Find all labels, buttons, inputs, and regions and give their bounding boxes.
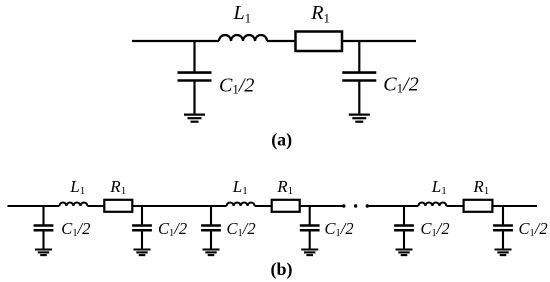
capacitor C1/2 shunt4 (b) bbox=[300, 226, 320, 231]
shunt 2 (b): wire node to capacitor bbox=[141, 206, 143, 226]
wire capacitor to ground shunt5 (b) bbox=[403, 230, 405, 250]
ellipsis dot 2 bbox=[354, 204, 357, 207]
svg-text:L1: L1 bbox=[232, 177, 248, 197]
resistor R1 section3 (b) bbox=[464, 200, 493, 212]
ground shunt5 (b) bbox=[396, 250, 413, 256]
shunt 6 (b): wire node to capacitor bbox=[502, 206, 504, 226]
wire input (a) bbox=[132, 40, 219, 42]
wire R1 section1 to section2 (b) bbox=[132, 205, 226, 207]
capacitor C1/2 shunt6 (b) bbox=[493, 226, 513, 231]
ground shunt3 (b) bbox=[203, 250, 220, 256]
shunt 4 (b): wire node to capacitor bbox=[309, 206, 311, 226]
wire capacitor to ground shunt2 (b) bbox=[141, 230, 143, 250]
ground shunt4 (b) bbox=[301, 250, 318, 256]
svg-text:L1: L1 bbox=[69, 177, 85, 197]
ellipsis dot 3 bbox=[366, 204, 369, 207]
ellipsis dot 1 bbox=[342, 204, 345, 207]
svg-text:L1: L1 bbox=[431, 177, 447, 197]
capacitor C1/2 shunt5 (b) bbox=[394, 226, 414, 231]
svg-text:R1: R1 bbox=[109, 177, 126, 197]
capacitor C1/2 right (a) bbox=[342, 73, 376, 81]
wire R1 section2 to dots (b) bbox=[300, 205, 344, 207]
ground shunt1 (b) bbox=[35, 250, 52, 256]
svg-text:C1/2: C1/2 bbox=[519, 219, 548, 239]
resistor R1 (a) bbox=[296, 32, 343, 52]
wire L1 to R1 section1 (b) bbox=[87, 205, 104, 207]
inductor L1 section1 (b) bbox=[59, 203, 87, 206]
ground shunt2 (b) bbox=[134, 250, 151, 256]
wire L1 to R1 section2 (b) bbox=[255, 205, 272, 207]
svg-text:C1/2: C1/2 bbox=[325, 219, 354, 239]
svg-text:(a): (a) bbox=[271, 129, 292, 150]
shunt 3 (b): wire node to capacitor bbox=[210, 206, 212, 226]
resistor R1 section2 (b) bbox=[272, 200, 300, 212]
inductor L1 (a) bbox=[219, 35, 267, 41]
inductor L1 section2 (b) bbox=[227, 203, 255, 206]
svg-text:C1/2: C1/2 bbox=[421, 219, 450, 239]
capacitor C1/2 left (a) bbox=[178, 73, 212, 81]
svg-text:C1/2: C1/2 bbox=[227, 219, 256, 239]
wire node-right to capacitor (a) bbox=[358, 41, 360, 73]
svg-text:L1: L1 bbox=[233, 2, 252, 25]
svg-text:C1/2: C1/2 bbox=[61, 219, 90, 239]
svg-text:(b): (b) bbox=[271, 259, 293, 280]
wire capacitor to ground left (a) bbox=[193, 81, 195, 116]
wire capacitor to ground shunt3 (b) bbox=[210, 230, 212, 250]
wire output (b) bbox=[492, 205, 537, 207]
inductor L1 section3 (b) bbox=[418, 203, 446, 206]
ground shunt6 (b) bbox=[495, 250, 512, 256]
svg-text:C1/2: C1/2 bbox=[383, 74, 418, 96]
wire input (b) bbox=[8, 205, 60, 207]
svg-text:R1: R1 bbox=[276, 177, 293, 197]
capacitor C1/2 shunt2 (b) bbox=[132, 226, 152, 231]
shunt 1 (b): wire node to capacitor bbox=[42, 206, 44, 226]
wire capacitor to ground shunt6 (b) bbox=[502, 230, 504, 250]
svg-text:C1/2: C1/2 bbox=[158, 219, 187, 239]
svg-text:R1: R1 bbox=[310, 2, 330, 25]
ground right (a) bbox=[349, 115, 370, 122]
svg-text:C1/2: C1/2 bbox=[219, 75, 254, 97]
wire capacitor to ground shunt1 (b) bbox=[42, 230, 44, 250]
resistor R1 section1 (b) bbox=[104, 200, 132, 212]
capacitor C1/2 shunt3 (b) bbox=[201, 226, 221, 231]
wire L1 to R1 section3 (b) bbox=[446, 205, 463, 207]
wire node-left to capacitor (a) bbox=[193, 41, 195, 73]
shunt 5 (b): wire node to capacitor bbox=[403, 206, 405, 226]
wire dots to section3 (b) bbox=[367, 205, 418, 207]
svg-text:R1: R1 bbox=[472, 177, 489, 197]
wire capacitor to ground shunt4 (b) bbox=[309, 230, 311, 250]
capacitor C1/2 shunt1 (b) bbox=[34, 226, 54, 231]
ground left (a) bbox=[184, 115, 205, 122]
wire output (a) bbox=[342, 40, 416, 42]
wire L1 to R1 (a) bbox=[267, 40, 296, 42]
wire capacitor to ground right (a) bbox=[358, 81, 360, 116]
